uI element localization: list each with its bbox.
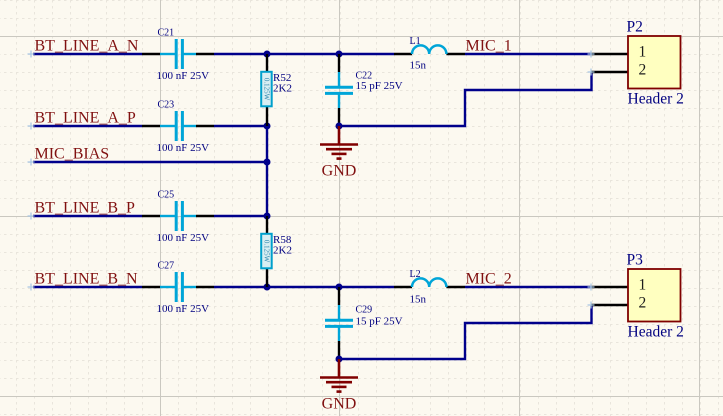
svg-text:C27: C27 [158,261,175,272]
capacitor C29 [325,287,353,359]
wire BT_LINE_A_N left segment [33,53,142,55]
net label MIC_1 [466,38,512,55]
inductor L1 [394,45,465,54]
svg-text:C23: C23 [158,100,175,111]
svg-text:P3: P3 [627,252,644,269]
wire BT_LINE_B_N left segment [33,286,142,288]
svg-text:L1: L1 [410,36,421,47]
node junction gnd bottom [336,356,343,363]
wire bus vertical [266,126,268,216]
label C29 [356,305,373,316]
node junction gnd top [336,123,343,130]
svg-text:15 pF 25V: 15 pF 25V [356,316,403,328]
node cross marks [28,51,595,309]
node junction row3 bus [264,159,271,166]
svg-text:BT_LINE_A_N: BT_LINE_A_N [35,38,139,55]
net label BT_LINE_A_P [35,110,136,127]
svg-text:C29: C29 [356,305,373,316]
capacitor C21 [142,39,214,69]
designator P3 [627,252,644,269]
resistor R52 [261,54,272,126]
comment Header 2 (P3) [628,324,684,341]
svg-text:2K2: 2K2 [273,83,292,95]
svg-text:BT_LINE_B_P: BT_LINE_B_P [35,200,136,217]
svg-text:P2: P2 [627,19,643,36]
capacitor C25 [142,201,214,231]
capacitor C27 [142,272,214,302]
value 100 nF 25V (C23) [157,142,210,154]
svg-text:15 pF 25V: 15 pF 25V [356,80,403,92]
pin 2 (P2) [639,62,647,79]
wire P3 pin2 to gnd [339,305,592,359]
value 15 pF 25V (C29) [356,316,403,328]
svg-text:Header 2: Header 2 [628,91,684,108]
svg-text:0.125W: 0.125W [262,78,270,101]
pin 1 (P3) [639,277,647,294]
label R52 [273,72,291,84]
value 100 nF 25V (C21) [157,70,210,82]
net label BT_LINE_B_P [35,200,136,217]
svg-text:1: 1 [639,44,647,61]
svg-text:0.125W: 0.125W [262,240,270,263]
svg-text:100 nF 25V: 100 nF 25V [157,303,210,315]
label GND1 [322,163,357,180]
designator P2 [627,19,643,36]
ground GND2 [320,359,358,392]
wire row2 right segment [214,125,267,127]
wire row4 right segment [214,215,267,217]
svg-text:2: 2 [639,295,647,312]
value 15 pF 25V (C22) [356,80,403,92]
value 100 nF 25V (C27) [157,303,210,315]
svg-text:BT_LINE_B_N: BT_LINE_B_N [35,271,139,288]
svg-text:15n: 15n [410,294,427,306]
connector P2 [592,36,681,89]
inductor L2 [394,278,465,287]
label C22 [356,71,373,82]
svg-text:MIC_1: MIC_1 [466,38,512,55]
node junction row2 bus [264,123,271,130]
svg-text:GND: GND [322,163,357,180]
ground GND1 [320,126,358,159]
pin 2 (P3) [639,295,647,312]
capacitor C22 [325,54,353,126]
svg-text:MIC_2: MIC_2 [466,271,512,288]
node junction row1 gnd branch [336,51,343,58]
node junction row5 gnd branch [336,284,343,291]
wire BT_LINE_B_P left segment [33,215,142,217]
node junction row4 bus [264,213,271,220]
wire MIC_1 segment [465,53,592,55]
svg-text:2: 2 [639,62,647,79]
pin 1 (P2) [639,44,647,61]
node junction row5 bus [264,284,271,291]
resistor R58 [261,216,272,287]
svg-text:15n: 15n [410,60,427,72]
connector P3 [592,269,681,322]
svg-text:Header 2: Header 2 [628,324,684,341]
svg-text:L2: L2 [410,269,421,280]
node junction row1 bus [264,51,271,58]
svg-text:100 nF 25V: 100 nF 25V [157,70,210,82]
svg-text:BT_LINE_A_P: BT_LINE_A_P [35,110,136,127]
wire MIC_BIAS [33,161,267,163]
wire P2 pin2 to gnd [339,72,592,126]
svg-text:100 nF 25V: 100 nF 25V [157,142,210,154]
comment Header 2 (P2) [628,91,684,108]
value 15n (L2) [410,294,427,306]
wire BT_LINE_A_P left segment [33,125,142,127]
net label MIC_2 [466,271,512,288]
net label MIC_BIAS [35,146,110,163]
label C27 [158,261,175,272]
wire row5 middle segment [214,286,394,288]
svg-text:C25: C25 [158,190,175,201]
svg-text:100 nF 25V: 100 nF 25V [157,232,210,244]
value 2K2 (R52) [273,83,292,95]
svg-text:C21: C21 [158,28,175,39]
label GND2 [322,396,357,413]
label C21 [158,28,175,39]
svg-text:GND: GND [322,396,357,413]
value 15n (L1) [410,60,427,72]
value 100 nF 25V (C25) [157,232,210,244]
label L1 [410,36,421,47]
label C23 [158,100,175,111]
net label BT_LINE_A_N [35,38,139,55]
svg-text:MIC_BIAS: MIC_BIAS [35,146,110,163]
capacitor C23 [142,111,214,141]
value 2K2 (R58) [273,245,292,257]
label R58 [273,234,292,246]
svg-text:1: 1 [639,277,647,294]
svg-text:2K2: 2K2 [273,245,292,257]
label L2 [410,269,421,280]
wire MIC_2 segment [465,286,592,288]
wire row1 middle segment [214,53,394,55]
net label BT_LINE_B_N [35,271,139,288]
label C25 [158,190,175,201]
